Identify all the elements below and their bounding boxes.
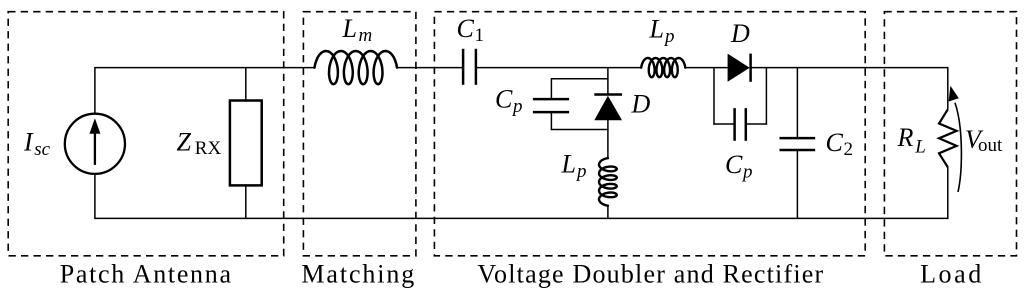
svg-text:L: L: [914, 137, 926, 158]
wire Isc branch top: [94, 67, 96, 114]
svg-text:RX: RX: [195, 138, 222, 159]
load dashed box: [884, 12, 1016, 256]
capacitor C_p (shunt) plates: [533, 98, 569, 101]
wire Isc branch bottom: [94, 174, 96, 220]
wire top right segment (diode D cathode to load corner): [751, 67, 948, 69]
wire parallel top bar: [551, 78, 608, 80]
wire Cp1 branch upper: [550, 78, 552, 99]
wire Cp2 right stub: [746, 123, 767, 125]
wire Cp1 branch lower: [550, 112, 552, 130]
svg-text:L: L: [649, 15, 664, 44]
patch antenna dashed box: [8, 12, 284, 256]
svg-text:Matching: Matching: [301, 260, 416, 289]
wire Zrx branch top: [245, 67, 247, 102]
svg-text:Load: Load: [920, 260, 984, 289]
wire load branch bottom: [947, 167, 949, 219]
wire top middle segment (C1 right plate to Lm... to diode D anode): [476, 67, 641, 69]
svg-text:2: 2: [844, 139, 854, 160]
capacitor C2 plates: [780, 137, 816, 140]
diode D shunt cathode bar: [594, 93, 622, 96]
svg-text:C: C: [495, 85, 513, 114]
svg-text:Voltage Doubler and Rectifier: Voltage Doubler and Rectifier: [477, 260, 824, 289]
wire load branch top: [947, 67, 949, 110]
svg-text:Patch Antenna: Patch Antenna: [60, 260, 233, 289]
wire Lp shunt to bottom rail: [607, 206, 609, 219]
wire top left segment (Isc top to Lm): [95, 67, 315, 69]
diode D series triangle: [728, 54, 750, 82]
wire diode to bottom bar: [607, 120, 609, 131]
inductor L_p series: [641, 58, 685, 77]
svg-text:C: C: [457, 14, 475, 43]
matching dashed box: [303, 12, 416, 256]
diode D series cathode bar: [749, 54, 752, 82]
svg-text:sc: sc: [34, 139, 50, 160]
svg-text:m: m: [359, 25, 373, 46]
wire node to diode cathode: [607, 67, 609, 95]
svg-text:L: L: [342, 14, 357, 43]
svg-text:C: C: [725, 150, 743, 179]
svg-text:Z: Z: [177, 128, 192, 157]
wire top segment Lm to C1 left plate: [397, 67, 463, 69]
wire bottom rail: [95, 217, 948, 219]
wire Cp2 left stub: [713, 123, 734, 125]
current source arrow: [94, 132, 96, 165]
wire C2 branch top: [796, 67, 798, 138]
svg-text:p: p: [511, 96, 523, 117]
current source I_sc circle: [65, 114, 125, 174]
wire Cp2 right branch: [765, 67, 767, 125]
wire top segment Lp to diode D: [685, 67, 727, 69]
svg-text:R: R: [897, 123, 914, 152]
wire C2 branch bottom: [796, 150, 798, 219]
capacitor C_p (series w/ diode) plates: [733, 108, 736, 141]
svg-text:p: p: [741, 162, 753, 183]
svg-text:p: p: [575, 161, 587, 182]
svg-text:1: 1: [475, 25, 485, 46]
inductor L_m: [315, 51, 398, 84]
wire Cp2 left branch: [713, 67, 715, 125]
impedance Z_RX rectangle: [230, 101, 262, 186]
voltage doubler and rectifier dashed box: [434, 12, 865, 256]
svg-text:I: I: [23, 128, 34, 157]
svg-text:out: out: [978, 135, 1003, 156]
diode D shunt triangle: [594, 96, 622, 120]
svg-text:D: D: [631, 90, 651, 119]
inductor L_p shunt: [599, 158, 617, 206]
svg-text:D: D: [730, 19, 750, 48]
svg-text:C: C: [826, 128, 844, 157]
svg-text:p: p: [663, 26, 675, 47]
wire bottom bar to Lp shunt: [607, 130, 609, 159]
svg-text:L: L: [561, 150, 576, 179]
V_out arrow arc: [955, 103, 961, 192]
wire Zrx branch bottom: [245, 184, 247, 219]
wire parallel bottom bar: [551, 129, 608, 131]
resistor R_L zigzag: [939, 109, 957, 167]
capacitor C1 plates: [462, 49, 465, 85]
